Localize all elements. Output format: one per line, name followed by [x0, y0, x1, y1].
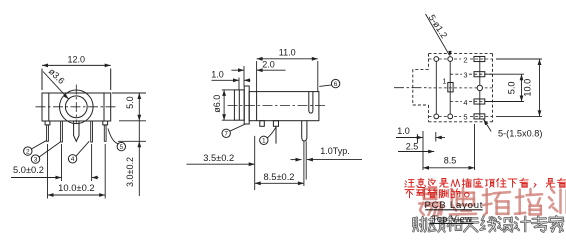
pad hole bottom-second [448, 114, 453, 119]
svg-text:6: 6 [334, 81, 338, 88]
dimension 10.0±0.2 [48, 144, 106, 199]
svg-text:3: 3 [463, 71, 467, 80]
watermark gray slogan characters [413, 216, 563, 232]
dimension 2.0 [231, 60, 285, 86]
label dia 3.6 with leader [43, 66, 69, 99]
pad number 3 [463, 71, 467, 80]
svg-text:3.5±0.2: 3.5±0.2 [203, 153, 234, 163]
pcb dimension 2.5 [398, 141, 434, 153]
svg-text:4: 4 [71, 156, 75, 163]
pcb internal dashed middle row [429, 87, 493, 89]
side view slot [309, 92, 313, 114]
pad number 1 [442, 76, 446, 85]
balloon 2 [24, 140, 47, 155]
dimension 1.0 left [211, 69, 250, 90]
svg-text:3.0±0.2: 3.0±0.2 [125, 157, 135, 187]
svg-text:5: 5 [463, 113, 467, 122]
pcb dimension 1.0 [396, 126, 445, 170]
pcb internal dashed row 3 [450, 73, 492, 75]
side view pin stub 2 with wire [273, 121, 278, 144]
label 5-dia1.2 with leader [426, 13, 452, 57]
pcb barrel notch dashed [413, 69, 429, 105]
pad 3 rect [474, 72, 485, 77]
dimension 1.0 Typ [291, 146, 363, 162]
pin 2 (front view leftmost) [45, 121, 50, 141]
pad hole top-second [448, 57, 453, 62]
balloon 6 [319, 79, 340, 88]
svg-text:2: 2 [463, 56, 467, 65]
pad 4 rect [474, 99, 485, 104]
dimension 5.0 right [112, 93, 146, 196]
side view main body [249, 92, 319, 121]
pcb solid column line left circles [435, 59, 437, 116]
front view body [42, 93, 111, 121]
svg-text:1: 1 [262, 138, 266, 145]
svg-text:5-(1.5x0.8): 5-(1.5x0.8) [498, 128, 542, 138]
pcb solid column line pads [479, 56, 481, 119]
svg-text:10.0±0.2: 10.0±0.2 [58, 182, 94, 193]
center pin (front view) [74, 121, 79, 141]
pcb dimension 8.5 [423, 124, 475, 170]
pad hole top-left [434, 57, 439, 62]
label Top View [430, 214, 474, 224]
dimension 8.5±0.2 [255, 172, 304, 185]
svg-text:7: 7 [224, 131, 228, 138]
balloon 3 [31, 142, 60, 164]
svg-text:2.0: 2.0 [262, 60, 275, 70]
side view centerline [228, 104, 326, 106]
front view vertical centerline [75, 85, 77, 125]
svg-text:3: 3 [34, 157, 38, 164]
svg-text:5.0: 5.0 [125, 96, 135, 109]
label PCB Layout [425, 200, 484, 211]
svg-text:8.5: 8.5 [444, 155, 457, 165]
balloon 1 [260, 127, 277, 145]
pad hole bottom-left [434, 114, 439, 119]
pcb internal dashed row 5 [429, 115, 493, 117]
svg-text:2: 2 [26, 149, 30, 156]
label 5-(1.5x0.8) with leader [484, 119, 543, 138]
svg-text:8.5±0.2: 8.5±0.2 [264, 172, 295, 182]
pad 5 rect [474, 114, 485, 119]
dimension dia 6.0 [212, 90, 234, 120]
dimension 11.0 [257, 48, 318, 92]
svg-text:12.0: 12.0 [68, 54, 86, 64]
side view barrel [234, 90, 244, 120]
pcb centerline [394, 87, 428, 89]
front view horizontal centerline [36, 106, 117, 108]
svg-text:2.5: 2.5 [406, 141, 419, 151]
svg-text:11.0: 11.0 [279, 48, 296, 58]
svg-text:5.0: 5.0 [507, 81, 517, 94]
dimension 12.0 [42, 54, 111, 90]
pcb dimension 10.0 [496, 59, 542, 116]
svg-text:5.0±0.2: 5.0±0.2 [13, 165, 44, 175]
front view outer circle [60, 90, 94, 124]
pcb solid column line pad1 [449, 56, 451, 118]
svg-text:ø3.6: ø3.6 [47, 66, 67, 86]
pcb internal dashed row 4 [450, 101, 492, 103]
dimension 3.5±0.2 [187, 136, 255, 190]
svg-text:Top View: Top View [432, 214, 472, 224]
dimension 3.0±0.2 right [118, 141, 146, 187]
pad number 4 [463, 98, 467, 107]
svg-text:4: 4 [463, 98, 467, 107]
pad 1 rect [448, 83, 453, 92]
pcb outline dashed [429, 54, 493, 122]
svg-text:1.0: 1.0 [397, 126, 410, 136]
side view flange [244, 86, 249, 124]
svg-text:10.0: 10.0 [523, 79, 533, 97]
front view inner circle [65, 96, 87, 118]
pin 3 (front view) [61, 121, 63, 142]
svg-text:ø6.0: ø6.0 [212, 95, 222, 113]
pin 4 (front view) [91, 121, 93, 142]
svg-text:1.0Typ.: 1.0Typ. [320, 146, 350, 156]
red note line 1 [405, 178, 566, 187]
balloon 4 [68, 141, 89, 163]
svg-text:1.0: 1.0 [211, 69, 224, 79]
svg-text:5: 5 [119, 144, 123, 151]
pad 2 rect [474, 56, 485, 61]
side view long pin [302, 121, 307, 186]
pcb internal dashed row 2 [429, 58, 493, 60]
pcb dimension 5.0 [486, 74, 525, 101]
balloon 7 [222, 124, 246, 138]
balloon 5 [108, 129, 126, 152]
pad hole middle-right [477, 85, 482, 90]
svg-text:1: 1 [442, 76, 446, 85]
watermark big pink characters [419, 188, 566, 216]
pad number 5 [463, 113, 467, 122]
red note line 2 [405, 189, 469, 198]
pad number 2 [463, 56, 467, 65]
side view pin stub 1 [260, 121, 265, 127]
dimension 5.0±0.2 [11, 144, 99, 181]
pin 5 (front view rightmost) [103, 121, 108, 141]
